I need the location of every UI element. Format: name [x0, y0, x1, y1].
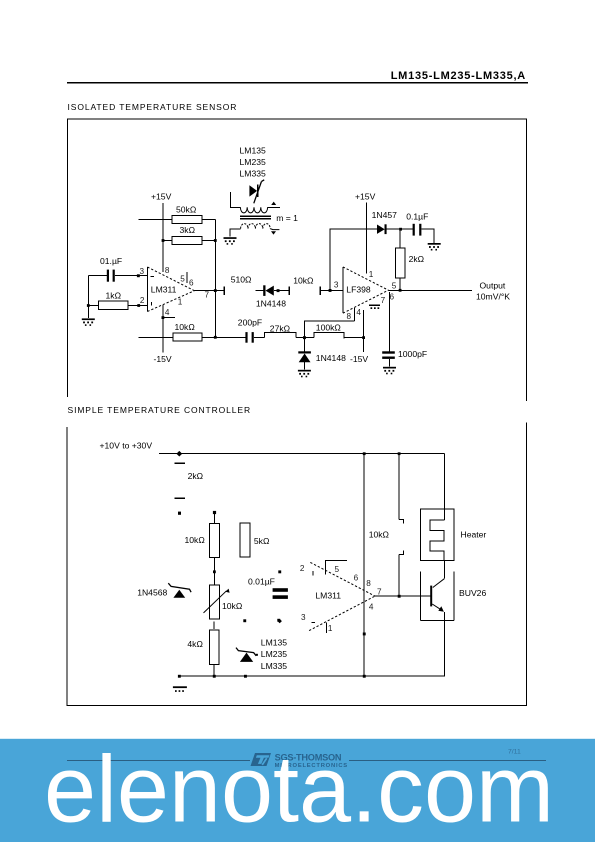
op-amp U1 LM311 comparator [147, 267, 194, 312]
pin 3 minus mark (U3) [311, 622, 315, 624]
junction 1k left [87, 304, 90, 307]
svg-text:8: 8 [347, 312, 352, 321]
svg-text:3: 3 [301, 613, 306, 622]
svg-text:1: 1 [369, 270, 374, 279]
junction pin2 [137, 304, 140, 307]
svg-text:3: 3 [140, 267, 145, 276]
ground input left [82, 318, 95, 326]
ground 0.1uF [428, 243, 441, 251]
junction on supply vertical [363, 633, 366, 636]
svg-text:6: 6 [354, 573, 359, 582]
wire secondary left lead [230, 229, 241, 237]
wire 10k right lead to 200pF [202, 336, 246, 338]
wire +15V row to diode [345, 228, 377, 230]
junction 2k/output [399, 289, 402, 292]
wire rail to heater [444, 454, 446, 521]
wire pin 4 stub down to -15V [163, 305, 175, 353]
wire 2k top lead [399, 229, 401, 248]
wire 10k to pot [213, 558, 215, 586]
resistor 3kOhm [172, 225, 202, 244]
wire node up and right to LF398 pin 8 [304, 308, 354, 338]
wire bottom ground rail [179, 675, 445, 677]
ground transformer secondary [224, 237, 237, 245]
resistor 27kOhm (bump style) [264, 324, 296, 338]
svg-text:m = 1: m = 1 [276, 213, 298, 223]
wire output from LF398 [388, 289, 472, 291]
sensor labels LM135 LM235 LM335 [240, 145, 266, 178]
junction 3k right [214, 239, 217, 242]
svg-text:7: 7 [377, 587, 382, 596]
svg-text:1N457: 1N457 [372, 210, 398, 220]
sensor zener LM135/235/335 [236, 648, 256, 662]
junction rail left end [178, 675, 181, 678]
svg-text:4: 4 [369, 603, 374, 612]
svg-text:10kΩ: 10kΩ [175, 322, 196, 332]
junction 3k left [162, 239, 165, 242]
wire pin 6 down to 1000pF [389, 292, 391, 351]
footer rule right [349, 760, 546, 762]
svg-text:200pF: 200pF [238, 318, 262, 328]
heater element [430, 520, 444, 560]
svg-text:Output: Output [480, 280, 506, 290]
junction rail/4k [213, 675, 216, 678]
junction below 2k [178, 512, 181, 515]
junction diode/100k node [303, 336, 306, 339]
footer rule left [67, 760, 250, 762]
wire 3k left lead [163, 240, 172, 242]
pin 1 stub (U3) [325, 622, 327, 633]
sensor zener symbol (LM135) [249, 180, 264, 204]
wire 2k bottom lead [399, 278, 401, 290]
svg-text:LM135: LM135 [261, 638, 287, 648]
svg-text:BUV26: BUV26 [459, 588, 486, 598]
junction pin 4 [162, 316, 165, 319]
junction rail/LM311 supply [363, 452, 366, 455]
svg-text:3: 3 [334, 281, 339, 290]
svg-text:7: 7 [205, 290, 210, 299]
svg-text:LM335: LM335 [261, 661, 287, 671]
wire secondary node vertical [330, 229, 345, 290]
junction output/feedback [214, 289, 217, 292]
op-amp U3 LM311 (controller) [309, 562, 375, 630]
potentiometer 10kOhm [204, 585, 243, 619]
svg-text:2: 2 [300, 564, 305, 573]
primary phasing mark [271, 202, 276, 205]
svg-text:LM311: LM311 [151, 284, 177, 294]
wire 200pF to 27k [254, 337, 265, 339]
wire primary right lead [268, 206, 280, 208]
terminal bar left of 510 ohm [223, 286, 225, 294]
svg-text:2kΩ: 2kΩ [188, 471, 204, 481]
pin 7 ground mark [369, 305, 380, 309]
junction rail/10k right [398, 452, 401, 455]
output label [476, 280, 510, 301]
svg-text:1: 1 [328, 624, 333, 633]
transistor Q1 BUV26 [421, 561, 487, 677]
resistor 1kOhm [98, 290, 128, 309]
wire LM311 pin 7 output [194, 290, 224, 292]
junction feedback bottom [214, 336, 217, 339]
ground below 1N4148 [298, 370, 311, 378]
capacitor 01uF input [88, 256, 138, 282]
svg-text:10kΩ: 10kΩ [369, 529, 390, 539]
svg-text:-15V: -15V [154, 354, 172, 364]
svg-text:8: 8 [165, 266, 170, 275]
svg-text:4: 4 [165, 308, 170, 317]
resistor 10kOhm divider top [185, 523, 220, 557]
svg-text:0.1µF: 0.1µF [406, 211, 428, 221]
wire 4k bottom lead [213, 664, 215, 676]
svg-text:LM235: LM235 [240, 157, 266, 167]
transformer T1 primary winding [240, 207, 267, 213]
pin 2 mark [312, 571, 314, 576]
svg-text:elenota.com: elenota.com [44, 737, 554, 842]
op-amp U2 LF398 sample-hold [343, 267, 389, 313]
junction diode/2k node [399, 228, 402, 231]
resistor 10kOhm (LM311 output row) [173, 322, 202, 341]
pin 5/6 balance stub [186, 272, 188, 283]
junction pin4 line [362, 336, 365, 339]
heater box [421, 509, 487, 560]
resistor 10kOhm pullup (partial scan) [369, 454, 404, 597]
svg-text:ISOLATED TEMPERATURE SENSOR: ISOLATED TEMPERATURE SENSOR [68, 102, 238, 112]
svg-text:8: 8 [366, 579, 371, 588]
svg-text:4kΩ: 4kΩ [187, 639, 203, 649]
svg-text:510Ω: 510Ω [231, 274, 252, 284]
wire LM311 output to transistor base [375, 595, 431, 597]
svg-text:5: 5 [392, 281, 397, 290]
svg-text:01.µF: 01.µF [100, 256, 122, 266]
wire pin 4 down to -15V [363, 310, 365, 352]
pin 5 stub (U3) [326, 561, 347, 575]
resistor 5kOhm [240, 523, 270, 557]
ground 1000pF [383, 367, 396, 375]
svg-text:LM311: LM311 [315, 591, 341, 601]
wire primary left lead [230, 192, 240, 208]
svg-text:10kΩ: 10kΩ [185, 535, 206, 545]
svg-text:+10V to +30V: +10V to +30V [100, 440, 153, 450]
sensor wire dots [243, 619, 280, 622]
transformer T1 secondary winding [241, 224, 271, 229]
svg-text:6: 6 [390, 293, 395, 302]
svg-text:0.01µF: 0.01µF [248, 577, 275, 587]
wire 50k right lead to feedback line [202, 219, 215, 221]
svg-text:5: 5 [180, 274, 185, 283]
svg-text:1kΩ: 1kΩ [106, 290, 122, 300]
wire 10k left lead [139, 336, 173, 338]
elenota watermark band [0, 739, 595, 842]
junction divider mid [213, 570, 216, 573]
wire feedback vertical (pin7 node) [214, 220, 216, 338]
svg-text:LM135-LM235-LM335,A: LM135-LM235-LM335,A [391, 70, 526, 82]
svg-text:1: 1 [178, 298, 183, 307]
svg-text:50kΩ: 50kΩ [176, 205, 197, 215]
diode D2 1N4148 to ground [298, 338, 346, 370]
capacitor 1000pF [382, 349, 427, 366]
resistor 2kOhm [395, 248, 424, 278]
svg-text:100kΩ: 100kΩ [316, 322, 342, 332]
svg-text:27kΩ: 27kΩ [270, 324, 291, 334]
secondary phasing mark [271, 231, 276, 234]
svg-text:1000pF: 1000pF [398, 349, 427, 359]
wire 3k right lead [202, 240, 215, 242]
svg-text:+15V: +15V [355, 191, 376, 201]
wire stub below pot [213, 621, 215, 629]
header rule [67, 82, 528, 84]
svg-text:LM335: LM335 [240, 169, 266, 179]
figure 1 border frame [68, 119, 527, 401]
SGS-Thomson ST logo [251, 753, 272, 766]
svg-text:2kΩ: 2kΩ [409, 254, 425, 264]
sensor labels LM135 LM235 LM335 (controller) [256, 638, 287, 671]
svg-text:10kΩ: 10kΩ [222, 601, 243, 611]
svg-text:Heater: Heater [461, 529, 487, 539]
wire 50k left lead [139, 219, 173, 221]
junction diode anode [277, 289, 280, 292]
wire pin3 lead [139, 275, 148, 277]
pin 2 plus mark [151, 302, 153, 306]
figure 2 border frame [67, 423, 526, 706]
diode D1 1N4148 [255, 285, 289, 308]
wire 27k to junction [296, 337, 314, 339]
svg-text:7: 7 [381, 296, 386, 305]
svg-text:LM135: LM135 [240, 145, 266, 155]
junction rail/LM311 pin4 [363, 675, 366, 678]
capacitor 0.01uF [248, 570, 288, 623]
resistor 100kOhm (bump style) [314, 322, 344, 338]
wire +15V vertical to LM311 pin 8 [162, 203, 164, 272]
svg-text:LF398: LF398 [346, 284, 371, 294]
terminal bar right of diode [288, 286, 290, 294]
resistor 2kOhm (partial scan) [175, 463, 204, 498]
svg-text:3kΩ: 3kΩ [180, 225, 196, 235]
svg-text:5kΩ: 5kΩ [254, 536, 270, 546]
junction output/10k [398, 595, 401, 598]
svg-text:5: 5 [335, 565, 340, 574]
ground bottom rail [173, 686, 187, 692]
junction pin 3 node [329, 289, 332, 292]
terminal bar left of LF398 input [319, 286, 321, 294]
svg-text:10mV/°K: 10mV/°K [476, 292, 510, 302]
wire secondary right lead [270, 229, 279, 230]
transformer core lines [240, 216, 271, 219]
wire stub above 10k divider [213, 511, 216, 524]
wire left input vertical [87, 276, 89, 318]
wire 100k right to LF398 pin4 line [344, 337, 364, 339]
wire LM311 supply vertical (pin8/pin4) [363, 454, 365, 677]
svg-text:6: 6 [189, 278, 194, 287]
svg-text:1N4148: 1N4148 [256, 299, 286, 309]
wire top supply rail [159, 453, 445, 455]
wire 1k left lead [88, 305, 98, 307]
wire +15V vertical to LF398 pin 1 [366, 203, 368, 274]
zener diode 1N4568 [137, 583, 191, 598]
svg-text:+15V: +15V [151, 192, 172, 202]
wire 1k right lead to pin2 [128, 305, 147, 307]
svg-text:LM235: LM235 [261, 649, 287, 659]
capacitor 0.1uF [401, 211, 435, 242]
pin 3 minus mark [151, 275, 155, 277]
resistor 4kOhm [187, 630, 219, 664]
resistor 50kOhm [172, 205, 202, 224]
svg-text:4: 4 [356, 308, 361, 317]
svg-text:1N4148: 1N4148 [316, 353, 346, 363]
svg-text:2: 2 [140, 296, 145, 305]
svg-text:SIMPLE TEMPERATURE CONTROLLER: SIMPLE TEMPERATURE CONTROLLER [68, 405, 252, 415]
svg-text:-15V: -15V [350, 354, 368, 364]
junction rail/sensor [244, 675, 247, 678]
svg-text:10kΩ: 10kΩ [293, 275, 314, 285]
diode D3 1N457 [372, 210, 401, 234]
svg-text:1N4568: 1N4568 [137, 588, 167, 598]
junction rail/2k [176, 451, 182, 457]
capacitor 200pF [238, 318, 262, 343]
wire into LF398 pin 3 [320, 289, 343, 291]
junction pin3 [137, 274, 140, 277]
